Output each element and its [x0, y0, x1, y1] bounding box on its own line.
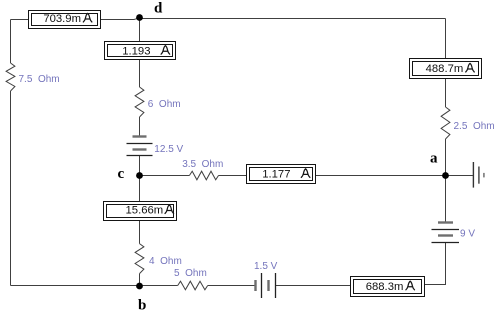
svg-text:6 Ohm: 6 Ohm: [148, 99, 181, 110]
svg-text:1.193: 1.193: [122, 45, 150, 57]
svg-text:488.7m: 488.7m: [426, 63, 464, 75]
svg-text:1.177: 1.177: [262, 169, 290, 181]
svg-text:a: a: [430, 151, 438, 167]
svg-text:7.5 Ohm: 7.5 Ohm: [19, 74, 60, 85]
svg-text:b: b: [138, 298, 146, 313]
svg-text:703.9m: 703.9m: [43, 13, 81, 25]
svg-text:688.3m: 688.3m: [366, 281, 404, 293]
svg-text:d: d: [154, 1, 163, 17]
svg-text:c: c: [118, 166, 125, 182]
svg-text:12.5 V: 12.5 V: [154, 144, 183, 155]
svg-text:2.5 Ohm: 2.5 Ohm: [454, 121, 495, 132]
svg-text:4 Ohm: 4 Ohm: [149, 256, 182, 267]
svg-text:1.5 V: 1.5 V: [254, 261, 278, 272]
svg-text:5 Ohm: 5 Ohm: [174, 268, 207, 279]
svg-text:3.5 Ohm: 3.5 Ohm: [182, 159, 223, 170]
svg-text:15.66m: 15.66m: [126, 205, 164, 217]
svg-text:9 V: 9 V: [460, 229, 475, 240]
